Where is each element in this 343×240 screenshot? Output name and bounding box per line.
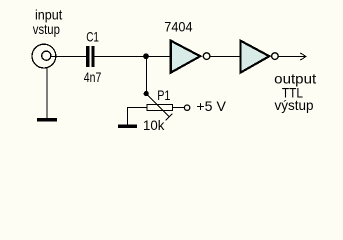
svg-text:10k: 10k	[143, 117, 165, 133]
svg-text:C1: C1	[86, 29, 99, 45]
svg-text:P1: P1	[157, 87, 170, 103]
svg-text:vstup: vstup	[33, 21, 60, 37]
svg-text:4n7: 4n7	[84, 69, 102, 85]
svg-text:7404: 7404	[164, 19, 192, 35]
svg-text:+5 V: +5 V	[196, 98, 226, 114]
svg-text:výstup: výstup	[275, 97, 314, 113]
